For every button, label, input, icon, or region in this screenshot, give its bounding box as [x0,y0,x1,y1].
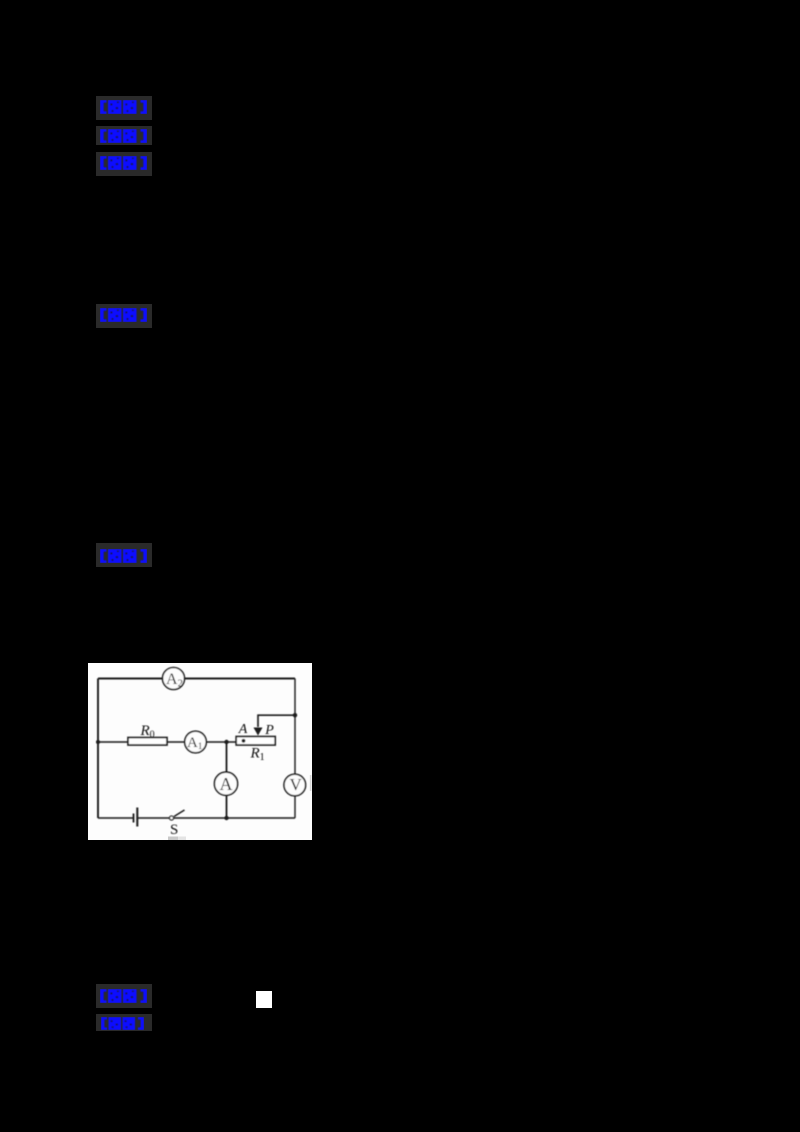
svg-text:V: V [290,775,303,794]
svg-text:A: A [238,722,248,737]
svg-text:A: A [220,774,233,794]
svg-text:S: S [170,822,178,838]
svg-text:P: P [264,723,274,738]
